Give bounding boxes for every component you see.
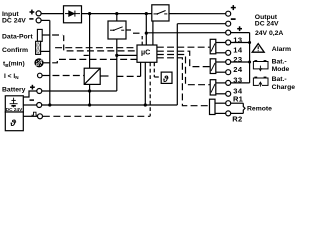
wire input plus to diode xyxy=(41,13,63,15)
uC top left dashed pin xyxy=(141,36,143,45)
wire remote bracket R1 xyxy=(231,102,244,104)
node aux junction xyxy=(145,31,148,34)
dash row D left xyxy=(84,54,89,56)
dashed control S1 to uC xyxy=(127,29,133,31)
node terminal R2 xyxy=(226,111,231,116)
label battery minus sign xyxy=(30,99,35,101)
diode V1 box xyxy=(64,6,82,23)
knob t-min xyxy=(35,59,43,67)
svg-text:Battery: Battery xyxy=(2,86,26,93)
svg-text:23: 23 xyxy=(233,55,242,64)
uC box U1 xyxy=(137,45,157,62)
dashed service line xyxy=(43,115,150,117)
node junction B xyxy=(115,12,118,15)
node bus junction input minus xyxy=(48,103,51,106)
alarm triangle xyxy=(252,44,264,53)
wire uC pin2 to bus xyxy=(144,62,146,105)
node terminal 33 xyxy=(226,80,231,85)
wire input minus stub xyxy=(41,19,50,21)
diode V1 symbol xyxy=(65,11,80,17)
svg-text:24V 0,2A: 24V 0,2A xyxy=(255,30,283,37)
wire switch S2 to output plus xyxy=(169,13,226,15)
wire S1 bottom to battery node xyxy=(116,39,118,91)
svg-text:13: 13 xyxy=(233,35,242,44)
wire aux rail vertical xyxy=(249,33,251,83)
relay K4 box xyxy=(210,99,216,114)
wire Confirm stub xyxy=(41,50,50,52)
Confirm dip lower xyxy=(37,48,40,53)
wire battery plus horizontal xyxy=(42,90,117,92)
dashed uC pin4 vertical xyxy=(153,62,155,77)
thermometer box xyxy=(5,112,23,131)
svg-text:Alarm: Alarm xyxy=(272,46,291,53)
pulse symbol service xyxy=(32,112,38,115)
node battery plus terminal xyxy=(37,89,42,94)
dashed indicator to DCDC xyxy=(53,75,85,77)
Confirm dip upper xyxy=(37,43,40,54)
battery icon mode xyxy=(253,60,268,71)
dashed uC row4 xyxy=(157,58,210,106)
svg-text:Confirm: Confirm xyxy=(2,47,28,54)
wire knob stub xyxy=(43,62,49,64)
node I less In indicator xyxy=(38,73,43,78)
wire battery plus elbow xyxy=(23,91,37,97)
node terminal 24 xyxy=(226,70,231,75)
svg-text:Remote: Remote xyxy=(247,105,272,112)
wire Data-Port stub xyxy=(42,34,50,36)
relay K2 blade xyxy=(211,63,215,71)
relay K1 blade xyxy=(211,44,215,52)
dashed DCDC to uC pin1 xyxy=(117,75,141,77)
svg-text:14: 14 xyxy=(233,46,243,55)
relay K3 blade xyxy=(211,84,215,93)
dashed pin4 to theta box xyxy=(154,76,161,78)
svg-text:Charge: Charge xyxy=(272,84,296,91)
wire charger bottom to bus xyxy=(89,84,91,105)
svg-text:R2: R2 xyxy=(232,115,242,124)
Confirm box xyxy=(36,41,41,54)
wire K2 to 24 xyxy=(216,71,226,73)
node charger battery junction xyxy=(88,89,91,92)
wire aux 24V row xyxy=(146,32,225,34)
relay K2 box xyxy=(210,59,216,74)
node battery minus terminal xyxy=(37,103,42,108)
label aux plus sign xyxy=(237,26,242,31)
wire uC pin1 xyxy=(140,62,142,76)
theta box right xyxy=(161,72,172,83)
node aux plus terminal xyxy=(226,30,231,35)
dashed uC row2 xyxy=(157,51,210,66)
wire K4 to R1 xyxy=(215,102,226,104)
relay K1 box xyxy=(210,39,216,54)
node rowD junction xyxy=(115,54,118,57)
node junction C xyxy=(145,12,148,15)
dashed uC row1 to K1 xyxy=(157,46,210,48)
wire S2 bottom pin to uC xyxy=(152,21,154,45)
dashed row B to uC xyxy=(67,50,137,52)
wire uC top middle pin xyxy=(145,33,147,45)
wire service stub xyxy=(23,115,37,117)
wire output minus vertical xyxy=(176,24,178,105)
svg-text:ϑ: ϑ xyxy=(162,74,169,84)
relay K3 box xyxy=(210,80,216,95)
node terminal 13 xyxy=(226,40,231,45)
dashed row A Confirm to uC xyxy=(55,47,137,49)
wire rail to 33 xyxy=(231,82,250,84)
svg-text:ϑ: ϑ xyxy=(9,118,16,129)
Data-Port box xyxy=(37,29,42,41)
wire K1 to 13 xyxy=(216,42,226,44)
svg-text:DC 24V: DC 24V xyxy=(2,18,26,25)
node terminal 34 xyxy=(226,91,231,96)
wire input minus vertical xyxy=(49,20,51,105)
wire top plus rail xyxy=(82,13,152,15)
switch S2 box xyxy=(152,5,169,21)
node input minus terminal xyxy=(36,18,41,23)
wire DCDC right stub xyxy=(100,75,108,77)
knob slot xyxy=(36,60,42,66)
svg-text:DC 24V: DC 24V xyxy=(6,107,23,112)
node input plus terminal xyxy=(36,11,41,16)
switch S2 left pin junction xyxy=(145,14,147,33)
knob ticks xyxy=(36,60,41,65)
switch S1 box xyxy=(108,21,126,39)
svg-text:µC: µC xyxy=(141,48,150,57)
DCDC converter box xyxy=(84,68,100,84)
node terminal 14 xyxy=(226,50,231,55)
label output minus sign xyxy=(231,18,236,20)
node charger bus junction xyxy=(88,103,91,106)
svg-text:Data-Port: Data-Port xyxy=(2,34,33,41)
wire remote bracket vertical xyxy=(243,103,245,113)
svg-text:R1: R1 xyxy=(233,95,244,104)
battery symbol xyxy=(10,98,18,108)
dashed Data-Port vertical xyxy=(63,35,65,51)
switch S1 contact xyxy=(110,27,124,31)
wire K1 to 14 xyxy=(216,52,226,54)
node output minus terminal xyxy=(226,21,231,26)
node terminal R1 xyxy=(226,101,231,106)
wire aux rail top xyxy=(231,32,250,34)
node rail junction 23 xyxy=(248,61,251,64)
wire minus bus xyxy=(42,104,178,106)
svg-text:DC 24V: DC 24V xyxy=(255,20,279,27)
dashed Data-Port drop xyxy=(52,34,62,36)
wire K4 to R2 xyxy=(215,112,226,114)
dashed uC pin3 vertical xyxy=(149,62,151,116)
node service terminal xyxy=(38,114,43,119)
wire indicator stub xyxy=(42,75,50,77)
wire K3 to 34 xyxy=(216,93,226,95)
svg-text:33: 33 xyxy=(233,76,242,85)
wire K2 to 23 xyxy=(216,61,226,63)
switch S2 contact xyxy=(154,11,168,15)
DCDC diagonal xyxy=(84,68,100,84)
label input minus sign xyxy=(29,18,33,20)
node terminal 23 xyxy=(226,60,231,65)
node junction A xyxy=(88,12,91,15)
wire rail to 23 xyxy=(231,61,250,63)
svg-text:Bat.-: Bat.- xyxy=(272,58,287,65)
dashed uC row3 xyxy=(157,55,210,85)
switch S1 top pin xyxy=(116,14,118,21)
node bus junction uC xyxy=(144,103,147,106)
svg-text:24: 24 xyxy=(233,65,243,74)
dashed row C knob to uC xyxy=(52,59,137,62)
wire vertical charger feed xyxy=(89,14,91,69)
wire row D solid xyxy=(117,54,137,56)
wire battery minus stub xyxy=(23,104,36,106)
battery icon charge xyxy=(253,77,268,87)
battery box xyxy=(5,96,23,112)
dashed S1 aux link xyxy=(133,32,140,34)
node output plus terminal xyxy=(226,11,231,16)
label battery plus sign xyxy=(30,85,35,90)
wire output minus horizontal xyxy=(177,23,225,25)
node rail junction 13 xyxy=(248,41,251,44)
wire rail to 13 xyxy=(231,42,250,44)
label input plus sign xyxy=(30,10,35,15)
svg-text:Bat.-: Bat.- xyxy=(272,76,287,83)
wire remote bracket R2 xyxy=(231,112,244,114)
label output plus sign xyxy=(231,5,236,10)
svg-text:Mode: Mode xyxy=(272,66,290,73)
wire K3 to 33 xyxy=(216,82,226,84)
